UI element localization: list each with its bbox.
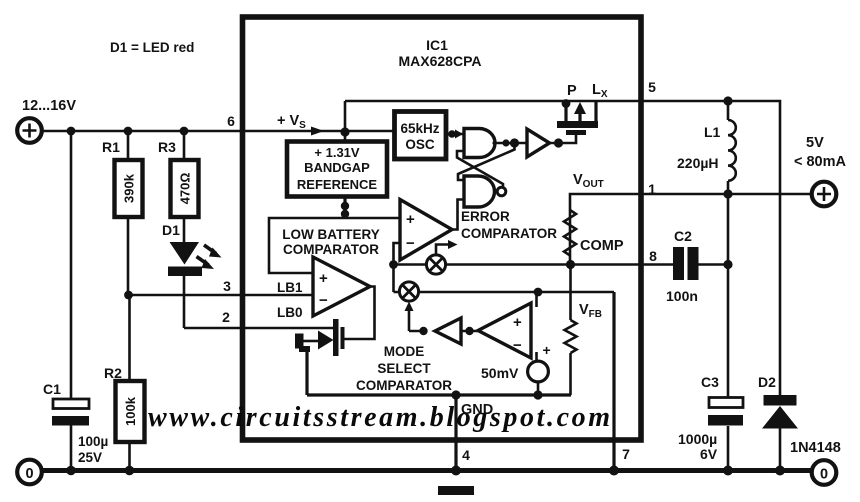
capacitor C3 <box>708 398 743 426</box>
wire error comp output to latch <box>452 200 464 230</box>
svg-text:D1: D1 <box>162 222 180 238</box>
wire LED cathode to line 2 <box>183 276 186 328</box>
node junction inverter mode <box>465 327 473 335</box>
node bandgap dot b <box>341 210 349 218</box>
svg-text:< 80mA: < 80mA <box>794 154 847 170</box>
node junction gnd pin4 <box>451 390 460 399</box>
reference +1.31V BANDGAP REFERENCE <box>287 142 387 197</box>
svg-text:R3: R3 <box>158 139 176 155</box>
node bandgap dot a <box>341 202 349 210</box>
wire mode comp plus input <box>535 292 538 307</box>
svg-text:+: + <box>319 270 328 287</box>
node junction rail C3 <box>723 466 733 476</box>
node junction comp pin8 <box>566 260 575 269</box>
switch S1 <box>426 255 445 274</box>
node junction minus pin8 line <box>389 260 398 269</box>
inductor L1 <box>728 101 736 194</box>
node junction C1 tap <box>67 127 76 136</box>
wire OSC output <box>445 133 464 136</box>
gate G2 bottom latch <box>464 176 495 207</box>
svg-text:COMP: COMP <box>580 238 624 254</box>
wire mode comp minus to source <box>535 352 538 361</box>
node junction rail R2 <box>125 466 135 476</box>
svg-text:L1: L1 <box>704 124 721 140</box>
svg-text:+: + <box>543 342 551 358</box>
svg-text:LOW BATTERY: LOW BATTERY <box>282 227 380 242</box>
wire Vout net down to C3 <box>727 194 730 397</box>
wire S1 control arrow <box>436 245 449 255</box>
svg-text:P: P <box>567 83 577 99</box>
node G1 out junction <box>510 138 519 147</box>
wire pin 5 LX line <box>641 101 780 395</box>
wire VS riser to top rail <box>344 101 347 141</box>
svg-text:LB1: LB1 <box>277 280 303 295</box>
wire line pin 2 <box>184 327 334 330</box>
node inverter out dot <box>419 327 427 335</box>
wire buffer to gate of PMOS <box>550 134 577 143</box>
svg-text:LX: LX <box>592 82 608 100</box>
wire latch feedback upper <box>457 151 503 188</box>
wire R1 bottom lead <box>127 217 130 295</box>
svg-text:D1 = LED red: D1 = LED red <box>110 40 194 55</box>
op-amp low battery comparator <box>313 257 370 316</box>
node junction plus lineB <box>534 288 543 297</box>
svg-text:REFERENCE: REFERENCE <box>297 177 378 192</box>
svg-text:+: + <box>406 211 415 228</box>
svg-text:+ 1.31V: + 1.31V <box>314 145 360 160</box>
svg-text:C3: C3 <box>701 374 719 390</box>
diode D2 <box>762 395 798 429</box>
svg-text:1000µ: 1000µ <box>678 431 717 447</box>
node junction R1 R2 line3 <box>124 291 133 300</box>
node junction L1 bottom <box>723 189 732 198</box>
svg-text:100k: 100k <box>123 396 138 426</box>
svg-text:BANDGAP: BANDGAP <box>304 160 370 175</box>
node junction C2 vout <box>723 260 732 269</box>
svg-text:+: + <box>513 314 522 331</box>
wire C1 bottom lead <box>70 426 73 469</box>
arrow on +VS wire <box>311 127 324 136</box>
svg-text:ERROR: ERROR <box>461 209 510 224</box>
wire lineB corner to pin 7 <box>612 292 615 470</box>
svg-text:COMPARATOR: COMPARATOR <box>283 242 379 257</box>
node junction rail C1 <box>66 466 76 476</box>
svg-text:3: 3 <box>223 278 231 294</box>
wire latch feedback lower <box>458 143 515 180</box>
node junction L1 top <box>723 96 732 105</box>
wire +VS pin6 internal <box>240 130 393 133</box>
gate G1 top latch <box>464 129 495 158</box>
gate G2 output bubble <box>497 187 506 196</box>
wire VFB resistor to gnd bus <box>569 353 572 395</box>
wire C3 to rail <box>727 426 730 468</box>
wire G1 output <box>493 142 528 145</box>
ground symbol <box>438 486 474 495</box>
wire R2 bottom lead <box>128 442 131 470</box>
source 50mV <box>528 361 549 382</box>
svg-text:VFB: VFB <box>579 302 602 320</box>
op-amp mode select comparator <box>478 303 531 358</box>
node junction gnd 50mV <box>533 390 542 399</box>
output terminal + <box>812 182 837 207</box>
svg-text:www.circuitsstream.blogspot.co: www.circuitsstream.blogspot.com <box>148 402 613 433</box>
wire ground rail <box>41 468 812 473</box>
wire bandgap output <box>343 197 346 218</box>
svg-text:−: − <box>513 337 522 354</box>
node G1 out dot small <box>502 139 509 146</box>
wire VOUT line pin 1 internal <box>570 194 641 265</box>
node junction VS bandgap <box>340 127 349 136</box>
svg-text:0: 0 <box>25 466 33 482</box>
svg-text:R2: R2 <box>104 365 122 381</box>
svg-text:5V: 5V <box>806 135 824 151</box>
wire R3 to LED <box>183 217 186 242</box>
svg-text:C2: C2 <box>674 228 692 244</box>
wire reference rail to comparators <box>269 218 400 273</box>
wire pin 8 comp line <box>394 263 642 266</box>
node junction rail pin7 <box>609 466 619 476</box>
svg-text:470Ω: 470Ω <box>178 173 193 205</box>
svg-text:R1: R1 <box>102 139 120 155</box>
svg-text:50mV: 50mV <box>481 365 519 381</box>
svg-text:MODE: MODE <box>384 344 425 359</box>
wire S2 control from inverter <box>409 305 424 331</box>
terminal 0 left <box>17 460 42 485</box>
svg-text:1N4148: 1N4148 <box>790 440 841 456</box>
node junction rail pin4 <box>451 466 461 476</box>
op-amp error comparator <box>400 200 452 261</box>
svg-text:5: 5 <box>648 79 656 95</box>
svg-text:−: − <box>406 235 415 252</box>
svg-text:VOUT: VOUT <box>573 172 604 190</box>
svg-text:12...16V: 12...16V <box>22 98 76 114</box>
svg-text:C1: C1 <box>43 381 61 397</box>
inverter U3 <box>435 318 461 344</box>
wire R3 top lead <box>183 131 186 160</box>
svg-text:+ VS: + VS <box>277 113 306 131</box>
svg-text:25V: 25V <box>78 450 102 465</box>
svg-text:6: 6 <box>227 113 235 129</box>
wire pin 8 to C2 <box>641 263 673 266</box>
wire Q1 source to internal ground <box>305 350 308 395</box>
wire inverter to mode comparator <box>461 330 478 333</box>
node junction R3 tap <box>180 127 189 136</box>
svg-text:LB0: LB0 <box>277 305 303 320</box>
svg-text:IC1: IC1 <box>426 37 448 53</box>
wire D2 to rail <box>779 428 782 468</box>
svg-text:390k: 390k <box>122 173 137 203</box>
wire R2 top lead <box>128 295 131 381</box>
node buffer out junction <box>554 138 563 147</box>
op-amp U1 IC box MAX628CPA <box>243 17 642 440</box>
svg-text:100µ: 100µ <box>78 434 108 449</box>
wire internal top rail to pin5 <box>345 100 641 103</box>
oscillator 65kHz OSC <box>395 112 447 160</box>
svg-text:COMPARATOR: COMPARATOR <box>461 226 557 241</box>
wire feedback line B <box>394 291 615 294</box>
node OSC output dot-arrow <box>448 130 463 139</box>
svg-text:−: − <box>319 292 328 309</box>
node junction rail D2 <box>775 466 785 476</box>
svg-text:OSC: OSC <box>405 137 435 152</box>
svg-text:8: 8 <box>649 248 657 264</box>
svg-text:6V: 6V <box>700 446 718 462</box>
resistor R2 100k <box>116 381 145 442</box>
terminal 0 right <box>812 460 837 485</box>
svg-text:65kHz: 65kHz <box>400 121 439 136</box>
svg-text:0: 0 <box>820 467 828 483</box>
wire line pin 3 <box>128 294 313 297</box>
svg-text:2: 2 <box>222 309 230 325</box>
resistor R1 390k <box>115 160 143 217</box>
wire R1 top lead <box>127 131 130 160</box>
transistor Q2 PMOS <box>557 99 598 135</box>
wire 50mV to gnd bus <box>537 382 540 395</box>
wire C2 to Vout net <box>699 263 729 266</box>
svg-text:220µH: 220µH <box>677 155 719 171</box>
svg-text:MAX628CPA: MAX628CPA <box>399 53 482 69</box>
wire VFB riser <box>569 265 572 321</box>
svg-text:7: 7 <box>622 446 630 462</box>
input terminal + <box>17 118 42 143</box>
wire pin 1 Vout line <box>641 193 811 196</box>
buffer U2 <box>527 129 550 157</box>
node junction R1 tap <box>124 127 133 136</box>
wire pin 4 to rail <box>454 395 457 470</box>
capacitor C2 <box>673 247 699 280</box>
wire input to pin 6 <box>42 130 240 133</box>
LED D1 <box>168 242 222 276</box>
resistor VFB zigzag <box>565 320 577 353</box>
svg-text:SELECT: SELECT <box>377 361 431 376</box>
svg-text:D2: D2 <box>758 374 776 390</box>
svg-text:4: 4 <box>462 447 470 463</box>
wire internal ground bus <box>307 393 571 396</box>
resistor comp zigzag <box>564 210 576 256</box>
resistor R3 470ohm <box>171 160 199 217</box>
svg-text:COMPARATOR: COMPARATOR <box>356 378 452 393</box>
wire LB comparator output <box>344 287 375 340</box>
wire error comp inverting input <box>394 243 401 292</box>
switch S2 <box>399 282 418 301</box>
wire C1 top lead <box>70 131 73 399</box>
transistor Q1 LBO open drain <box>295 319 345 356</box>
svg-text:100n: 100n <box>666 288 698 304</box>
capacitor C1 <box>52 399 89 426</box>
